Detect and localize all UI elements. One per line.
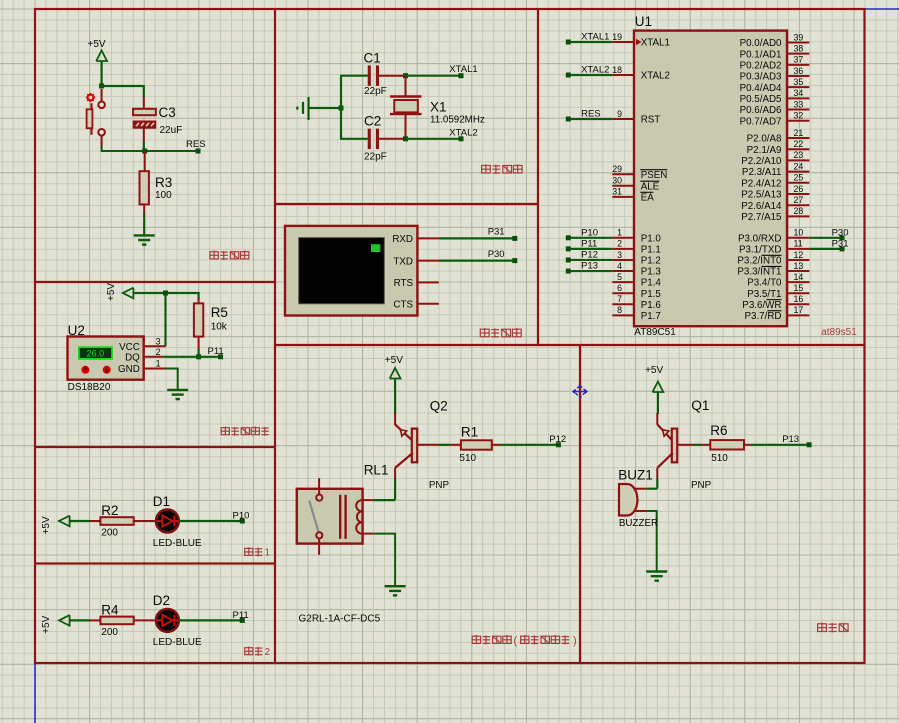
- svg-text:R1: R1: [461, 425, 478, 440]
- svg-text:Q1: Q1: [691, 398, 709, 413]
- svg-text:200: 200: [101, 528, 118, 539]
- svg-text:P10: P10: [581, 227, 598, 238]
- svg-text:6: 6: [617, 283, 622, 293]
- svg-text:VCC: VCC: [119, 342, 140, 353]
- svg-text:R5: R5: [211, 305, 228, 320]
- svg-text:21: 21: [794, 128, 804, 138]
- svg-text:P3.5/T1: P3.5/T1: [747, 289, 781, 300]
- svg-text:+5V: +5V: [385, 355, 403, 366]
- svg-text:22: 22: [794, 139, 804, 149]
- svg-text:RES: RES: [186, 139, 206, 150]
- svg-text:P0.4/AD4: P0.4/AD4: [740, 83, 782, 94]
- svg-text:C3: C3: [159, 105, 176, 120]
- svg-text:XTAL2: XTAL2: [641, 71, 670, 82]
- svg-text:DS18B20: DS18B20: [68, 382, 111, 393]
- svg-text:DQ: DQ: [125, 353, 140, 364]
- svg-text:P12: P12: [549, 434, 566, 445]
- svg-text:P2.2/A10: P2.2/A10: [741, 156, 782, 167]
- svg-text:RST: RST: [641, 115, 661, 126]
- svg-text:P13: P13: [782, 434, 799, 445]
- svg-text:12: 12: [794, 250, 804, 260]
- svg-text:P1.5: P1.5: [641, 289, 662, 300]
- svg-text:P2.1/A9: P2.1/A9: [747, 145, 782, 156]
- svg-text:RES: RES: [581, 109, 601, 120]
- svg-text:RXD: RXD: [392, 234, 413, 245]
- svg-text:36: 36: [794, 66, 804, 76]
- svg-text:24: 24: [794, 161, 804, 171]
- svg-text:R3: R3: [155, 175, 172, 190]
- svg-text:+5V: +5V: [41, 615, 52, 633]
- svg-text:22pF: 22pF: [364, 152, 387, 163]
- svg-text:): ): [573, 635, 577, 647]
- svg-text:P11: P11: [233, 610, 249, 621]
- svg-text:P1.6: P1.6: [641, 300, 662, 311]
- svg-text:10: 10: [794, 228, 804, 238]
- svg-text:P2.6/A14: P2.6/A14: [741, 201, 782, 212]
- svg-text:BUZ1: BUZ1: [618, 468, 653, 483]
- svg-text:28: 28: [794, 206, 804, 216]
- svg-text:RTS: RTS: [394, 278, 414, 289]
- svg-text:P10: P10: [233, 511, 250, 522]
- svg-text:P31: P31: [488, 227, 505, 238]
- svg-text:9: 9: [617, 109, 622, 119]
- svg-text:5: 5: [617, 272, 622, 282]
- svg-text:P1.3: P1.3: [641, 267, 662, 278]
- svg-text:P2.7/A15: P2.7/A15: [741, 212, 782, 223]
- svg-text:P0.1/AD1: P0.1/AD1: [740, 49, 782, 60]
- svg-text:XTAL1: XTAL1: [641, 38, 670, 49]
- svg-text:P1.2: P1.2: [641, 256, 661, 267]
- svg-text:LED-BLUE: LED-BLUE: [153, 538, 202, 549]
- svg-text:P0.3/AD3: P0.3/AD3: [740, 72, 782, 83]
- svg-text:39: 39: [794, 32, 804, 42]
- svg-text:P30: P30: [832, 228, 849, 239]
- svg-text:P3.2/INT0: P3.2/INT0: [737, 256, 782, 267]
- svg-text:18: 18: [612, 65, 622, 75]
- svg-text:30: 30: [612, 176, 622, 186]
- svg-text:13: 13: [794, 261, 804, 271]
- svg-text:P2.4/A12: P2.4/A12: [741, 178, 781, 189]
- svg-text:26: 26: [794, 184, 804, 194]
- svg-text:P2.0/A8: P2.0/A8: [747, 134, 782, 145]
- svg-text:+5V: +5V: [645, 365, 663, 376]
- svg-text:Q2: Q2: [430, 399, 448, 414]
- svg-text:P2.3/A11: P2.3/A11: [742, 167, 782, 178]
- svg-text:2: 2: [265, 647, 271, 658]
- svg-text:P31: P31: [832, 239, 849, 250]
- svg-text:R2: R2: [101, 503, 118, 518]
- svg-text:CTS: CTS: [393, 300, 413, 311]
- svg-text:C2: C2: [364, 114, 381, 129]
- svg-text:XTAL1: XTAL1: [581, 32, 609, 43]
- svg-text:P3.4/T0: P3.4/T0: [747, 278, 782, 289]
- svg-text:P11: P11: [208, 346, 224, 357]
- svg-text:XTAL2: XTAL2: [449, 128, 477, 139]
- svg-text:P0.5/AD5: P0.5/AD5: [740, 94, 782, 105]
- svg-text:P3.7/RD: P3.7/RD: [744, 311, 781, 322]
- svg-text:17: 17: [794, 305, 804, 315]
- svg-text:32: 32: [794, 110, 804, 120]
- svg-text:P2.5/A13: P2.5/A13: [741, 190, 782, 201]
- svg-text:AT89C51: AT89C51: [634, 327, 676, 338]
- svg-text:+5V: +5V: [106, 283, 117, 301]
- svg-text:200: 200: [101, 627, 118, 638]
- svg-text:P11: P11: [581, 238, 597, 249]
- svg-text:P1.7: P1.7: [641, 311, 661, 322]
- svg-text:P3.0/RXD: P3.0/RXD: [738, 233, 782, 244]
- svg-text:P30: P30: [488, 249, 505, 260]
- svg-text:11.0592MHz: 11.0592MHz: [430, 114, 485, 125]
- svg-text:ALE: ALE: [641, 181, 660, 192]
- svg-text:U1: U1: [635, 14, 652, 29]
- svg-text:P3.1/TXD: P3.1/TXD: [739, 244, 781, 255]
- svg-text:1: 1: [265, 548, 271, 559]
- svg-text:22uF: 22uF: [160, 125, 183, 136]
- svg-text:PSEN: PSEN: [641, 170, 668, 181]
- svg-text:1: 1: [617, 228, 622, 238]
- svg-text:D1: D1: [153, 494, 170, 509]
- svg-text:3: 3: [617, 250, 622, 260]
- svg-text:7: 7: [617, 294, 622, 304]
- svg-text:26.0: 26.0: [87, 348, 105, 358]
- svg-text:2: 2: [617, 239, 622, 249]
- svg-text:D2: D2: [153, 593, 170, 608]
- svg-text:35: 35: [794, 77, 804, 87]
- svg-text:P1.0: P1.0: [641, 233, 662, 244]
- svg-text:at89s51: at89s51: [821, 327, 857, 338]
- svg-text:100: 100: [155, 190, 172, 201]
- svg-text:33: 33: [794, 99, 804, 109]
- svg-text:XTAL1: XTAL1: [449, 64, 477, 75]
- svg-text:R6: R6: [710, 423, 727, 438]
- svg-text:15: 15: [794, 283, 804, 293]
- svg-text:G2RL-1A-CF-DC5: G2RL-1A-CF-DC5: [299, 614, 381, 625]
- svg-text:34: 34: [794, 88, 804, 98]
- svg-text:P1.1: P1.1: [641, 244, 661, 255]
- svg-text:P3.6/WR: P3.6/WR: [742, 300, 781, 311]
- svg-text:BUZZER: BUZZER: [619, 518, 658, 529]
- svg-text:29: 29: [612, 164, 622, 174]
- svg-text:LED-BLUE: LED-BLUE: [153, 637, 202, 648]
- svg-text:RL1: RL1: [364, 463, 389, 478]
- svg-text:31: 31: [612, 187, 622, 197]
- svg-text:TXD: TXD: [393, 256, 413, 267]
- svg-text:P1.4: P1.4: [641, 278, 662, 289]
- svg-text:+5V: +5V: [88, 39, 106, 50]
- svg-text:14: 14: [794, 272, 804, 282]
- svg-text:23: 23: [794, 150, 804, 160]
- svg-text:8: 8: [617, 305, 622, 315]
- svg-text:+5V: +5V: [41, 516, 52, 534]
- svg-text:510: 510: [711, 453, 728, 464]
- svg-text:P0.2/AD2: P0.2/AD2: [740, 60, 782, 71]
- svg-text:P3.3/INT1: P3.3/INT1: [737, 267, 781, 278]
- svg-text:19: 19: [612, 32, 622, 42]
- svg-text:GND: GND: [118, 364, 140, 375]
- svg-text:22pF: 22pF: [364, 86, 387, 97]
- svg-text:P0.7/AD7: P0.7/AD7: [740, 116, 782, 127]
- svg-text:11: 11: [794, 239, 803, 249]
- svg-text:3: 3: [156, 337, 161, 347]
- svg-text:P12: P12: [581, 250, 598, 261]
- svg-text:C1: C1: [364, 51, 381, 66]
- svg-text:P0.6/AD6: P0.6/AD6: [740, 105, 782, 116]
- svg-text:27: 27: [794, 195, 804, 205]
- svg-text:P13: P13: [581, 261, 598, 272]
- svg-text:1: 1: [156, 359, 161, 369]
- svg-text:4: 4: [617, 261, 622, 271]
- svg-text:R4: R4: [101, 603, 119, 618]
- svg-text:510: 510: [459, 453, 476, 464]
- svg-text:EA: EA: [641, 193, 655, 204]
- svg-text:P0.0/AD0: P0.0/AD0: [740, 38, 782, 49]
- svg-text:U2: U2: [68, 323, 85, 338]
- svg-text:10k: 10k: [211, 322, 228, 333]
- svg-text:PNP: PNP: [691, 480, 712, 491]
- svg-text:X1: X1: [430, 100, 447, 115]
- svg-text:2: 2: [156, 347, 161, 357]
- svg-text:(: (: [514, 635, 518, 647]
- svg-text:PNP: PNP: [429, 480, 450, 491]
- svg-text:38: 38: [794, 43, 804, 53]
- svg-text:XTAL2: XTAL2: [581, 65, 609, 76]
- svg-text:25: 25: [794, 173, 804, 183]
- svg-text:37: 37: [794, 55, 804, 65]
- svg-text:16: 16: [794, 294, 804, 304]
